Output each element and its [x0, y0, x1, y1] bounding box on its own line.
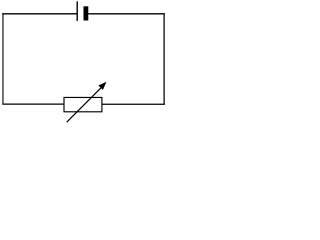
- wire left side: [2, 13, 4, 104]
- wire bottom-left segment: [2, 103, 64, 105]
- battery cell B1 negative plate (short thick): [84, 6, 89, 20]
- rheostat R1 arrow shaft: [67, 86, 103, 122]
- rheostat R1 arrowhead: [99, 82, 106, 89]
- wire top-right segment: [88, 13, 165, 15]
- battery cell B1 positive plate (long thin): [76, 1, 78, 21]
- wire bottom-right segment: [102, 103, 165, 105]
- rheostat R1 body: [64, 97, 102, 111]
- wire right side: [163, 13, 165, 105]
- wire top-left segment: [2, 13, 77, 15]
